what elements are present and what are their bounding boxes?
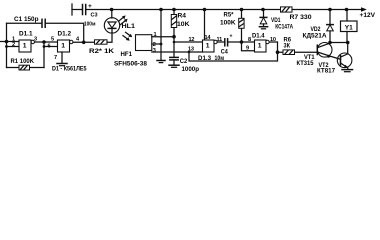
svg-text:Y1: Y1 — [345, 24, 353, 31]
svg-text:КД521А: КД521А — [303, 32, 327, 39]
svg-text:КТ315: КТ315 — [297, 60, 314, 67]
svg-text:R2* 1K: R2* 1K — [89, 48, 114, 55]
svg-text:3: 3 — [153, 48, 156, 54]
svg-text:12: 12 — [189, 37, 195, 43]
svg-text:100K: 100K — [220, 19, 236, 26]
svg-text:3К: 3К — [284, 43, 291, 50]
svg-text:7: 7 — [54, 55, 57, 61]
svg-text:R7 330: R7 330 — [290, 14, 312, 21]
svg-text:+: + — [230, 34, 233, 40]
svg-text:КС147А: КС147А — [275, 23, 293, 30]
svg-text:D1.4: D1.4 — [252, 32, 265, 39]
svg-text:1: 1 — [258, 43, 262, 50]
svg-text:5: 5 — [51, 37, 54, 43]
svg-text:SFH506-38: SFH506-38 — [114, 60, 147, 67]
svg-text:6: 6 — [48, 44, 51, 50]
svg-text:КТ817: КТ817 — [317, 68, 335, 75]
svg-text:R1 100K: R1 100K — [11, 58, 35, 65]
svg-text:1: 1 — [23, 43, 27, 50]
svg-text:1: 1 — [206, 43, 210, 50]
svg-text:HF1: HF1 — [121, 51, 133, 58]
svg-text:9: 9 — [246, 46, 249, 52]
svg-text:HL1: HL1 — [122, 23, 136, 30]
svg-text:+12V: +12V — [360, 12, 376, 19]
svg-text:D1.2: D1.2 — [58, 31, 72, 38]
svg-text:1000p: 1000p — [182, 66, 200, 73]
svg-text:C2: C2 — [180, 58, 188, 65]
svg-text:10K: 10K — [177, 21, 190, 28]
svg-text:1: 1 — [61, 43, 65, 50]
svg-text:100м: 100м — [84, 21, 96, 27]
svg-text:R4: R4 — [178, 13, 187, 20]
svg-text:D1 - К561ЛЕ5: D1 - К561ЛЕ5 — [52, 65, 87, 72]
svg-text:C3: C3 — [91, 13, 98, 19]
svg-text:2: 2 — [153, 42, 156, 48]
svg-text:C1 150p: C1 150p — [14, 16, 39, 23]
svg-text:R5*: R5* — [224, 12, 234, 19]
svg-text:2: 2 — [12, 42, 15, 48]
svg-text:D1.1: D1.1 — [19, 31, 33, 38]
svg-text:8: 8 — [248, 37, 251, 43]
